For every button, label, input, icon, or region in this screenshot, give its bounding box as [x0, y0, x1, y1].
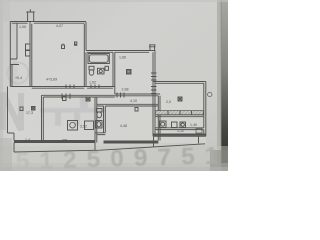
svg-text:2,98: 2,98 [122, 88, 129, 92]
svg-text:1,4: 1,4 [25, 138, 30, 142]
svg-text:17,3: 17,3 [26, 111, 33, 115]
svg-text:4,10: 4,10 [130, 99, 137, 103]
svg-text:1,05: 1,05 [19, 25, 26, 29]
svg-text:1,66: 1,66 [119, 56, 126, 60]
svg-text:1,40: 1,40 [190, 123, 197, 127]
svg-text:1,52: 1,52 [89, 81, 96, 85]
svg-text:2,0: 2,0 [166, 100, 171, 104]
svg-text:+0,4: +0,4 [15, 76, 22, 80]
svg-text:3,52: 3,52 [80, 125, 87, 129]
svg-text:4,48: 4,48 [120, 124, 127, 128]
svg-text:4,07: 4,07 [56, 24, 63, 28]
svg-text:1,12: 1,12 [177, 129, 184, 133]
svg-text:4=5,69: 4=5,69 [46, 78, 57, 82]
svg-text:ПР: ПР [62, 139, 68, 143]
